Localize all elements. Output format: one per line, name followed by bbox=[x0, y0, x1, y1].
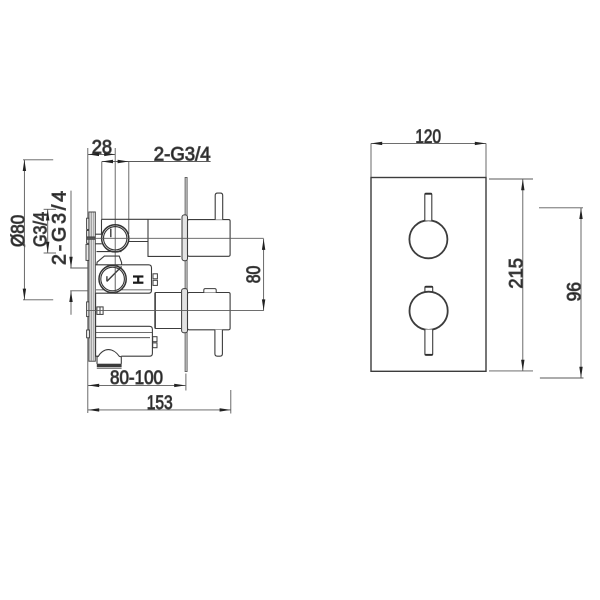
bottom knob tab bbox=[425, 286, 433, 292]
outlet housing inner line bbox=[96, 332, 152, 334]
bottom knob lever bbox=[425, 330, 433, 356]
pipe junction at wall plate bbox=[86, 236, 95, 239]
dimension 80 (right of side view) bbox=[263, 239, 265, 311]
bottom knob circle bbox=[410, 292, 448, 330]
front plate bbox=[371, 178, 486, 372]
bottom handle flange bbox=[182, 289, 188, 333]
body top-left vertical bbox=[101, 219, 103, 234]
clip right of middle housing bbox=[153, 274, 157, 286]
wall plate tab 4 bbox=[87, 302, 89, 317]
outlet housing bottom bbox=[96, 326, 153, 356]
body top edge bbox=[102, 218, 181, 220]
svg-text:96: 96 bbox=[563, 282, 585, 301]
bottom handle lever bbox=[215, 330, 223, 356]
middle port indicator bbox=[107, 267, 122, 282]
dimension 215 extension lines bbox=[489, 179, 533, 371]
top port outer circle bbox=[102, 225, 129, 252]
dimension 80 arrows bbox=[262, 239, 265, 311]
153 right extension line bbox=[230, 390, 232, 414]
left edge lower body bbox=[95, 293, 97, 326]
housing inner bottom line bbox=[96, 289, 151, 291]
svg-text:80-100: 80-100 bbox=[110, 367, 163, 389]
leader 2-G3/4 left vertical with arrows bbox=[70, 191, 88, 315]
lower port centerline bbox=[87, 310, 264, 312]
bottom handle body bbox=[188, 293, 231, 330]
port edge extension left bbox=[101, 162, 103, 220]
dimension 153 line bbox=[88, 409, 231, 411]
dimension 96 arrows bbox=[579, 208, 582, 378]
port centerline / 28 right extension bbox=[114, 148, 116, 294]
inlet stub bottom bbox=[95, 243, 102, 245]
inlet stub top bbox=[95, 233, 102, 235]
dimension Ø80 line bbox=[23, 160, 53, 300]
top handle lever bbox=[215, 193, 223, 220]
leader arrows to port edges bbox=[102, 160, 129, 163]
pipe lower edge right of top port bbox=[129, 241, 148, 243]
top port inner circle bbox=[104, 227, 127, 250]
dimension 80-100 line bbox=[88, 384, 185, 386]
top port indicator line bbox=[110, 229, 112, 238]
lower pipe bottom edge bbox=[155, 328, 181, 330]
dimension 96 line bbox=[580, 208, 582, 378]
label H (rotated) bbox=[133, 275, 143, 283]
dimension G3/4 arrows bbox=[46, 209, 49, 253]
svg-text:215: 215 bbox=[505, 258, 527, 289]
120 extension lines bbox=[371, 143, 486, 177]
dimension 153 arrows bbox=[88, 408, 231, 411]
dimension 80-100 arrows bbox=[88, 384, 185, 387]
escutcheon plate edge-on bbox=[185, 178, 187, 372]
top port centerline bbox=[87, 237, 264, 239]
wall plate tab 2 bbox=[87, 231, 89, 244]
hex boss between ports bbox=[97, 252, 122, 265]
dimension 96 ticks bbox=[539, 208, 584, 378]
dimension G3/4 line bbox=[44, 209, 56, 253]
dimension 28 arrows bbox=[88, 153, 116, 156]
screw boss on lower body bbox=[97, 307, 103, 315]
wall plate tab 3 bbox=[86, 244, 89, 260]
80-100 right extension line bbox=[185, 374, 187, 391]
wall plate tab 1 bbox=[87, 218, 89, 229]
bottom outlet base line bbox=[97, 367, 122, 369]
lower body section bbox=[96, 293, 181, 329]
lower pipe top edge bbox=[155, 292, 181, 294]
top handle body bbox=[188, 220, 231, 257]
body section boundary vertical bbox=[147, 219, 149, 256]
dimension 28 line bbox=[88, 153, 116, 155]
dimension 28 left extension line bbox=[87, 148, 89, 413]
wall plate tab 5 bbox=[87, 330, 90, 338]
cartridge housing middle bbox=[96, 265, 152, 293]
svg-text:120: 120 bbox=[415, 126, 441, 148]
lower vertical boundary (dark) bbox=[154, 293, 156, 329]
svg-text:80: 80 bbox=[243, 266, 265, 284]
dimension 215 arrows bbox=[521, 179, 524, 371]
bottom outlet dome bbox=[97, 350, 121, 364]
bottom handle top tab bbox=[204, 289, 216, 293]
middle port outer circle bbox=[99, 265, 126, 292]
dimension 120 arrows bbox=[371, 142, 486, 145]
bottom outlet dark bar bbox=[97, 364, 122, 367]
middle port inner circle bbox=[101, 267, 125, 291]
top knob lever bbox=[425, 193, 432, 220]
port edge extension right bbox=[128, 162, 130, 235]
clip right of outlet housing bbox=[153, 337, 157, 348]
upper pipe bottom edge bbox=[148, 255, 181, 257]
wall plate bbox=[89, 212, 95, 361]
dimension 120 line bbox=[371, 142, 486, 144]
svg-text:153: 153 bbox=[147, 392, 173, 414]
top knob circle bbox=[409, 220, 447, 258]
svg-text:Ø80: Ø80 bbox=[7, 215, 29, 247]
top handle flange bbox=[182, 215, 188, 261]
svg-text:2-G3/4: 2-G3/4 bbox=[154, 143, 211, 165]
dimension Ø80 arrows bbox=[23, 160, 26, 300]
svg-text:2-G3/4: 2-G3/4 bbox=[49, 191, 71, 265]
leader 2-G3/4 top bbox=[102, 161, 211, 163]
valve body group bbox=[95, 219, 180, 256]
port centerline over middle circle bbox=[114, 265, 116, 294]
dimension 215 line bbox=[522, 179, 524, 371]
2-G3/4 left leader arrows bbox=[69, 257, 72, 302]
